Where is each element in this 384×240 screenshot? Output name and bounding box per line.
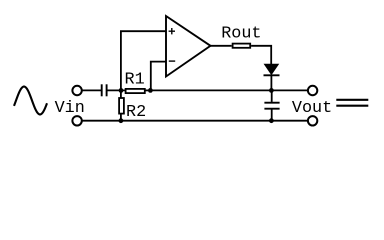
capacitor C2 bottom plate (264, 108, 279, 110)
wire node B to output rail (150, 89, 307, 91)
AC source sine symbol (14, 87, 47, 115)
junction dot diode/rail (269, 88, 274, 93)
DC output symbol top bar (336, 99, 368, 101)
junction dot C2 bottom (269, 118, 274, 123)
svg-text:Rout: Rout (221, 25, 261, 44)
terminal Vin bottom (72, 116, 81, 125)
terminal Vout bottom (308, 116, 317, 125)
svg-text:Vin: Vin (55, 99, 85, 118)
wire rail down to capacitor C2 (271, 90, 273, 102)
op-amp + input sign (169, 28, 175, 34)
capacitor C1 right plate (106, 84, 108, 96)
capacitor C2 (filter) top plate (264, 102, 279, 104)
terminal Vout top (308, 86, 317, 95)
wire Vin top to capacitor C1 (82, 89, 101, 91)
wire op-amp output to Rout (211, 45, 232, 47)
wire node A down to R2 (120, 90, 122, 97)
wire node B up to op-amp - input (151, 62, 166, 91)
resistor R1 body (126, 89, 145, 93)
wire capacitor C1 to node A (108, 89, 125, 91)
node B junction dot (148, 88, 153, 93)
diode D1 cathode bar (264, 74, 280, 76)
wire diode to output rail (270, 75, 272, 90)
bottom rail wire (82, 120, 308, 122)
capacitor C1 (coupling) left plate (101, 84, 103, 96)
junction dot R2 bottom (119, 118, 124, 123)
op-amp - input sign (169, 60, 175, 62)
diode D1 anode triangle (265, 64, 279, 74)
node A junction dot (119, 88, 124, 93)
wire node A up to op-amp + input (121, 31, 166, 90)
resistor R2 body (119, 98, 124, 114)
wire R2 to bottom rail (120, 114, 122, 121)
op-amp U1 triangle (166, 16, 211, 77)
wire R1 to node B (144, 89, 150, 91)
DC output symbol bottom bar (336, 105, 368, 107)
wire Rout to diode corner (251, 46, 271, 65)
svg-text:R1: R1 (125, 70, 145, 89)
svg-text:R2: R2 (126, 103, 146, 122)
resistor Rout body (233, 44, 251, 48)
wire capacitor C2 to bottom rail (271, 110, 273, 121)
terminal Vin top (72, 86, 81, 95)
